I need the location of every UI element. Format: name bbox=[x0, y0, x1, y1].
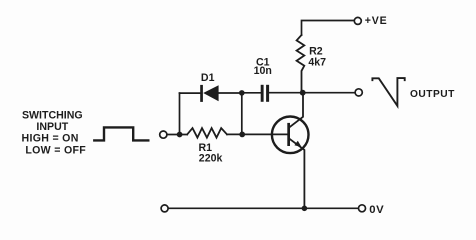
svg-text:4k7: 4k7 bbox=[308, 57, 326, 69]
svg-text:OUTPUT: OUTPUT bbox=[410, 89, 455, 100]
svg-text:+VE: +VE bbox=[365, 15, 388, 27]
svg-text:LOW = OFF: LOW = OFF bbox=[25, 144, 86, 156]
svg-text:D1: D1 bbox=[201, 72, 215, 84]
svg-text:220k: 220k bbox=[199, 153, 223, 165]
svg-text:10n: 10n bbox=[254, 65, 272, 77]
svg-text:0V: 0V bbox=[369, 204, 384, 216]
svg-text:SWITCHING: SWITCHING bbox=[22, 110, 83, 122]
svg-text:HIGH = ON: HIGH = ON bbox=[22, 133, 79, 145]
svg-text:INPUT: INPUT bbox=[36, 121, 68, 133]
